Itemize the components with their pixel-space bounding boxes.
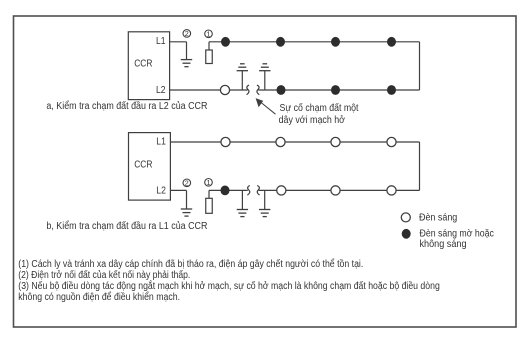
svg-text:dây với mạch hở: dây với mạch hở xyxy=(279,115,346,126)
CCR U-a label xyxy=(134,58,152,69)
label (2) circuit b xyxy=(183,178,191,187)
svg-text:2: 2 xyxy=(185,29,189,38)
legend lamp lit symbol xyxy=(401,213,410,222)
lamp lit B4 xyxy=(387,137,396,146)
fault arrow (circuit a) xyxy=(256,98,276,114)
svg-text:b, Kiểm tra chạm đất đầu ra L1: b, Kiểm tra chạm đất đầu ra L1 của CCR xyxy=(46,221,207,232)
fault note line 1 (circuit a) xyxy=(280,103,359,114)
test device (1) circuit a xyxy=(206,50,213,64)
svg-text:L2: L2 xyxy=(156,186,166,197)
lamp dark A4 xyxy=(387,37,396,47)
legend lamp dark symbol xyxy=(402,229,411,239)
terminal label L1 (circuit a) xyxy=(156,36,166,47)
svg-text:Đèn sáng mờ hoặc: Đèn sáng mờ hoặc xyxy=(420,229,495,240)
lamp lit B2 xyxy=(276,137,285,146)
lamp lit B7 xyxy=(331,186,340,195)
CCR U-b label xyxy=(134,159,152,170)
break mark right (circuit b) xyxy=(257,186,259,196)
svg-text:Đèn sáng: Đèn sáng xyxy=(419,213,457,224)
wire: break to right side circuit b xyxy=(259,189,420,191)
break mark left (circuit a) xyxy=(247,85,249,95)
ground fault tap left (circuit b) xyxy=(237,190,248,216)
ground fault tap right (circuit b) xyxy=(259,190,270,216)
test device (1) circuit b xyxy=(206,198,213,213)
svg-text:(3) Nếu bộ điều dòng tác động: (3) Nếu bộ điều dòng tác động ngắt mạch … xyxy=(18,281,440,292)
terminal label L2 (circuit a) xyxy=(156,85,166,96)
break mark left (circuit b) xyxy=(247,186,249,196)
svg-text:CCR: CCR xyxy=(134,159,152,170)
wire: L1 field line circuit b xyxy=(170,141,419,143)
lamp dark A6 xyxy=(277,85,286,95)
wire: right side circuit b xyxy=(419,142,421,190)
caption b xyxy=(46,221,207,232)
svg-text:(1) Cách ly và tránh xa dây cá: (1) Cách ly và tránh xa dây cáp chính đã… xyxy=(18,259,363,270)
lamp lit B1 xyxy=(221,137,230,146)
lamp dark A1 xyxy=(221,37,230,47)
label (2) circuit a xyxy=(183,29,191,38)
ground fault tap left (circuit a) xyxy=(237,64,248,90)
label (1) circuit a xyxy=(205,29,213,38)
lamp lit A5 xyxy=(220,85,229,94)
ground (2) on CCR-b L2 output xyxy=(181,190,192,216)
ground (2) on CCR-a L1 output xyxy=(181,42,192,67)
wire: break to right side circuit a xyxy=(258,89,419,91)
svg-text:2: 2 xyxy=(185,178,189,187)
CCR U-b box (circuit b) xyxy=(129,133,171,201)
svg-text:L1: L1 xyxy=(156,36,166,47)
label (1) circuit b xyxy=(205,178,213,187)
wire: right side circuit a xyxy=(419,42,421,90)
lamp dark A3 xyxy=(331,37,340,47)
note (2) xyxy=(18,270,190,281)
note (1) xyxy=(18,259,363,270)
svg-text:(2) Điện trở nối đất của kết n: (2) Điện trở nối đất của kết nối này phả… xyxy=(18,270,190,281)
wire: device (1) to break circuit b xyxy=(209,189,248,191)
caption a xyxy=(46,101,207,112)
legend label lit xyxy=(419,213,457,224)
wire: CCR-a L2 to break xyxy=(170,89,248,91)
svg-text:không có nguồn điện để điều kh: không có nguồn điện để điều khiển mạch. xyxy=(18,292,180,303)
lamp lit B6 xyxy=(277,186,286,195)
lamp lit B3 xyxy=(331,137,340,146)
wire: CCR-a L1 to ground tap xyxy=(170,41,187,43)
wire: device (1) stem circuit a xyxy=(208,42,210,50)
note (3) line 2 xyxy=(18,292,180,303)
CCR U-a box (circuit a) xyxy=(128,32,169,100)
svg-text:L2: L2 xyxy=(156,85,166,96)
svg-text:Sự cố chạm đất một: Sự cố chạm đất một xyxy=(280,103,359,114)
wire: CCR-b L2 to ground tap xyxy=(170,189,186,191)
svg-text:a, Kiểm tra chạm đất đầu ra L2: a, Kiểm tra chạm đất đầu ra L2 của CCR xyxy=(46,101,207,112)
svg-text:1: 1 xyxy=(207,29,211,38)
break mark right (circuit a) xyxy=(257,85,259,95)
terminal label L2 (circuit b) xyxy=(156,186,166,197)
wire: L1 field line circuit a xyxy=(209,41,420,43)
lamp lit B8 xyxy=(387,186,396,195)
svg-text:không sáng: không sáng xyxy=(420,239,467,250)
wire: device (1) stem circuit b xyxy=(208,190,210,198)
legend label dark line 1 xyxy=(420,229,495,240)
lamp dark B5 xyxy=(221,186,230,196)
note (3) line 1 xyxy=(18,281,440,292)
svg-text:CCR: CCR xyxy=(134,58,152,69)
lamp dark A2 xyxy=(276,37,285,47)
svg-text:L1: L1 xyxy=(156,137,166,148)
ground fault tap right (circuit a) xyxy=(259,64,270,90)
lamp dark A8 xyxy=(387,85,396,95)
lamp dark A7 xyxy=(331,85,340,95)
svg-text:1: 1 xyxy=(207,178,211,187)
terminal label L1 (circuit b) xyxy=(156,137,166,148)
fault note line 2 (circuit a) xyxy=(279,115,346,126)
legend label dark line 2 xyxy=(420,239,467,250)
